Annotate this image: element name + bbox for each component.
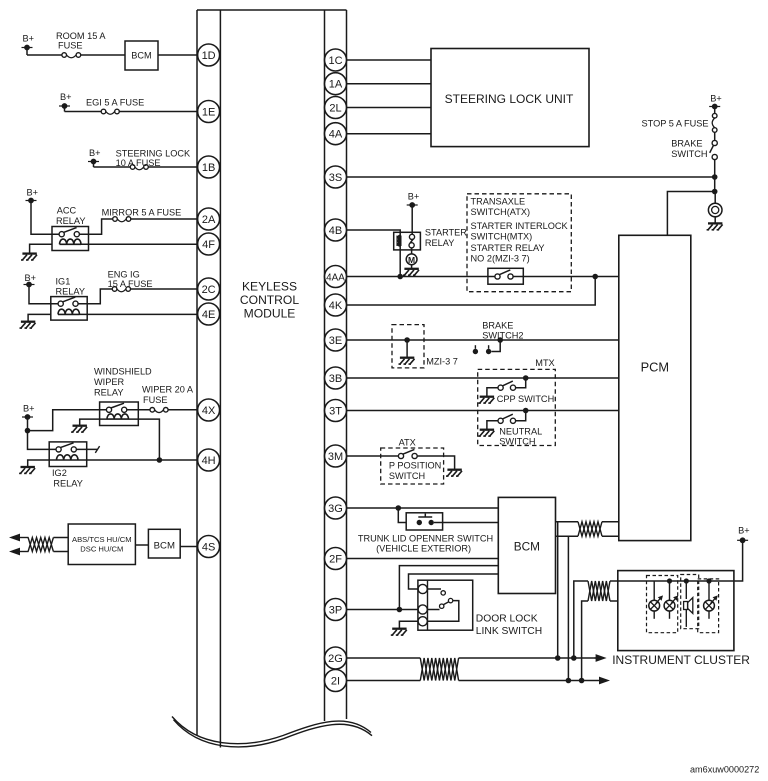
transaxle switch box (solid): [488, 268, 523, 284]
STEERING LOCK UNIT box: [431, 49, 589, 147]
ground (wiper relay): [71, 426, 87, 432]
wire 3M to switch: [347, 455, 399, 457]
label ROOM 15 A FUSE: [56, 31, 106, 51]
twisted pair (ABS): [28, 538, 53, 552]
ground (CPP): [478, 397, 494, 403]
svg-text:P POSITION: P POSITION: [389, 461, 441, 471]
wire IG2 coil to 4H: [78, 459, 209, 461]
wire drop BCM1 to 2G: [557, 522, 559, 658]
svg-text:STARTER INTERLOCK: STARTER INTERLOCK: [471, 221, 569, 231]
svg-text:1A: 1A: [329, 79, 343, 91]
wire to PCM top: [667, 192, 714, 236]
IG1 relay coil: [58, 309, 80, 314]
wire B+ to SL fuse: [94, 166, 131, 168]
label CPP SWITCH: [497, 394, 555, 404]
relay box IG1: [51, 297, 87, 321]
svg-text:INSTRUMENT CLUSTER: INSTRUMENT CLUSTER: [612, 653, 750, 667]
svg-text:WIPER: WIPER: [94, 377, 124, 387]
svg-text:DOOR LOCK: DOOR LOCK: [476, 614, 538, 625]
wire coil to 4E: [80, 313, 209, 315]
wavy break at bottom of module: [172, 717, 372, 747]
svg-text:2G: 2G: [328, 653, 343, 665]
wire B+ into cluster: [734, 540, 743, 581]
connector pin 4AA: [325, 266, 347, 288]
svg-text:B+: B+: [710, 94, 722, 104]
buzzer/speaker: [684, 581, 693, 627]
wire 1A to steering lock unit: [347, 83, 432, 85]
fuse STOP 5A: [712, 113, 717, 132]
svg-text:KEYLESS: KEYLESS: [242, 280, 297, 294]
B+ terminal (ACC): [26, 188, 39, 204]
connector pin 1D: [198, 44, 220, 66]
connector pin 2C: [198, 278, 220, 300]
cluster internal bus: [618, 580, 734, 582]
svg-text:IG1: IG1: [56, 277, 71, 287]
junction CPP: [523, 375, 529, 381]
svg-text:B+: B+: [60, 92, 72, 102]
starter relay coil: [397, 236, 400, 247]
svg-text:2F: 2F: [329, 553, 342, 565]
connector pin 2F: [325, 548, 347, 570]
label STEERING LOCK 10 A FUSE: [116, 149, 191, 169]
label ACC RELAY: [56, 206, 85, 227]
label EGI 5 A FUSE: [86, 98, 144, 108]
trunk lid switch box: [406, 513, 442, 530]
MZI-3 7 dashed box: [392, 325, 424, 368]
wire 2I right: [459, 680, 599, 682]
wire to ground (MZI): [406, 340, 408, 357]
starter relay box: [394, 232, 421, 250]
connector pin 4B: [325, 219, 347, 241]
BCM box (ABS): [148, 529, 180, 558]
label KEYLESS CONTROL MODULE: [240, 280, 299, 321]
svg-text:4X: 4X: [202, 405, 216, 417]
wire fuse to 2C: [131, 288, 209, 290]
connector pin 1A: [325, 73, 347, 95]
svg-text:TRANSAXLE: TRANSAXLE: [471, 197, 526, 207]
svg-text:1D: 1D: [202, 50, 216, 62]
ground (neutral): [478, 430, 494, 436]
connector pin 3M: [325, 445, 347, 467]
junction 4K/4AA: [592, 274, 598, 280]
body ground (circled): [707, 192, 723, 230]
ground (MZI): [399, 358, 415, 364]
wire SL fuse to 1B: [148, 166, 208, 168]
connector pin 3E: [325, 329, 347, 351]
wire coil to ground (ACC): [30, 244, 52, 253]
junction MZI ground tap: [404, 337, 410, 343]
wire 2I left: [347, 680, 421, 682]
wire 3E to PCM: [347, 339, 619, 341]
wire brake switch to 3S: [714, 160, 716, 177]
svg-text:ROOM 15 A: ROOM 15 A: [56, 31, 106, 41]
svg-text:4E: 4E: [202, 309, 215, 321]
junction 2G b: [571, 655, 577, 661]
svg-text:STARTER RELAY: STARTER RELAY: [471, 243, 545, 253]
svg-text:FUSE: FUSE: [58, 41, 83, 51]
wire B+ to fuse: [27, 54, 62, 56]
label INSTRUMENT CLUSTER: [612, 653, 750, 667]
svg-text:B+: B+: [27, 188, 39, 198]
svg-text:2A: 2A: [202, 214, 216, 226]
label TRUNK LID OPENNER SWITCH: [358, 534, 493, 554]
wiper relay coil: [107, 414, 129, 419]
arrow 2G: [595, 654, 607, 662]
wire 2I up to cluster: [582, 601, 588, 681]
door lock internal contacts: [427, 589, 459, 621]
ground (ACC relay): [21, 254, 37, 260]
svg-text:CPP SWITCH: CPP SWITCH: [497, 394, 555, 404]
junction brake switch2: [497, 337, 503, 343]
label WIPER 20 A FUSE: [142, 385, 194, 406]
svg-text:MIRROR 5 A FUSE: MIRROR 5 A FUSE: [102, 207, 182, 217]
label MIRROR 5 A FUSE: [102, 207, 182, 217]
svg-text:BRAKE: BRAKE: [671, 139, 702, 149]
wire ABS to BCM: [135, 544, 148, 546]
wire BCM to 1D: [158, 54, 209, 56]
wire ACC contact to fuse: [79, 219, 112, 234]
B+ terminal (cluster): [737, 526, 750, 544]
svg-text:4AA: 4AA: [326, 272, 345, 283]
ground (door lock): [391, 629, 407, 635]
connector pin 1C: [325, 49, 347, 71]
keyless control module outline (two connector strips): [197, 10, 347, 748]
svg-text:2L: 2L: [329, 102, 341, 114]
starter relay contacts: [409, 234, 415, 248]
INSTRUMENT CLUSTER box: [618, 571, 734, 651]
ABS/TCS HU/CM DSC HU/CM box: [68, 524, 135, 565]
connector pin 4H: [198, 449, 220, 471]
svg-text:4K: 4K: [329, 300, 343, 312]
wire wiper coil to ground: [80, 419, 107, 425]
wire 2G up to cluster: [574, 581, 588, 658]
label DOOR LOCK LINK SWITCH: [476, 614, 542, 638]
svg-text:BCM: BCM: [154, 541, 175, 552]
svg-text:B+: B+: [89, 148, 101, 158]
svg-text:1E: 1E: [202, 106, 215, 118]
wire 4AA to PCM: [347, 276, 619, 278]
TRANSAXLE dashed box: [467, 194, 571, 292]
indicator lamp 3: [704, 581, 718, 619]
connector pin 2A: [198, 208, 220, 230]
svg-text:NO 2(MZI-3 7): NO 2(MZI-3 7): [471, 254, 530, 264]
fuse ROOM 15A: [62, 53, 81, 58]
connector pin 4X: [198, 399, 220, 421]
relay box IG2: [49, 442, 86, 467]
svg-text:RELAY: RELAY: [94, 388, 123, 398]
svg-text:SWITCH: SWITCH: [499, 437, 535, 447]
PCM box: [619, 235, 691, 540]
svg-text:RELAY: RELAY: [56, 216, 85, 226]
connector pin 3T: [325, 400, 347, 422]
wire IG2 contact stub: [76, 446, 99, 453]
wire 3G to BCM: [347, 507, 499, 509]
wire CPP to ground: [487, 388, 498, 397]
fuse WIPER 20A: [150, 408, 168, 413]
svg-text:MODULE: MODULE: [244, 307, 296, 321]
label BRAKE SWITCH2: [482, 321, 523, 341]
label NEUTRAL SWITCH: [499, 427, 542, 447]
svg-text:3T: 3T: [329, 405, 342, 417]
IG2 relay coil: [56, 455, 78, 460]
svg-text:B+: B+: [23, 404, 35, 414]
wire fuse to 4X: [168, 409, 209, 411]
label STOP 5 A FUSE: [642, 119, 709, 129]
junction 3S/brake: [712, 174, 718, 180]
wire 2G left: [347, 657, 421, 659]
label ENG IG 15 A FUSE: [108, 270, 153, 290]
wire 3P to switch: [347, 609, 419, 611]
svg-text:3G: 3G: [328, 503, 343, 515]
ACC relay contacts: [59, 228, 79, 237]
indicator lamp 1: [649, 581, 663, 619]
wire down to PCM feed: [714, 177, 716, 192]
B+ terminal (wiper): [22, 404, 35, 420]
svg-text:BCM: BCM: [131, 51, 151, 61]
wire 4B to starter relay coil: [347, 230, 401, 236]
CPP switch contacts: [498, 381, 516, 390]
wire B+ to wiper relay: [28, 410, 107, 431]
wire 2G right: [459, 657, 596, 659]
wire B+ down to ACC relay: [31, 201, 59, 235]
svg-text:BRAKE: BRAKE: [482, 321, 513, 331]
junction 2G a: [555, 655, 561, 661]
label P POSITION SWITCH: [389, 461, 441, 482]
wire 3T to PCM: [347, 410, 619, 412]
svg-text:SWITCH(ATX): SWITCH(ATX): [471, 207, 531, 217]
ground (starter motor): [403, 265, 419, 276]
relay box wiper: [100, 402, 139, 426]
wire B+ to starter contact: [411, 205, 413, 234]
svg-text:RELAY: RELAY: [56, 287, 85, 297]
wire into cluster 1: [610, 580, 618, 582]
junction starter coil/4AA: [397, 274, 403, 280]
B+ terminal (IG1): [24, 273, 37, 287]
door lock poles: [418, 584, 427, 626]
svg-text:1C: 1C: [328, 55, 342, 67]
svg-text:ATX: ATX: [399, 438, 416, 448]
svg-text:CONTROL: CONTROL: [240, 293, 299, 307]
B+ terminal (starter relay): [407, 192, 420, 208]
svg-text:4S: 4S: [202, 541, 215, 553]
arrow 2I: [598, 677, 610, 685]
junction lamp2 bus: [667, 578, 672, 583]
connector pin 1B: [198, 156, 220, 178]
wire 1C to steering lock unit: [347, 59, 432, 61]
ACC relay coil: [60, 239, 82, 244]
svg-text:RELAY: RELAY: [425, 238, 454, 248]
svg-text:DSC HU/CM: DSC HU/CM: [80, 545, 123, 554]
connector pin 4S: [198, 536, 220, 558]
svg-text:M: M: [408, 255, 415, 265]
wire 3B to PCM: [347, 377, 619, 379]
junction lamp3 bus: [706, 578, 711, 583]
svg-text:SWITCH2: SWITCH2: [482, 331, 523, 341]
connector pin 2L: [325, 97, 347, 119]
svg-text:(VEHICLE EXTERIOR): (VEHICLE EXTERIOR): [376, 544, 471, 554]
wires braid to ABS box: [53, 538, 68, 552]
label WINDSHIELD WIPER RELAY: [94, 367, 152, 398]
svg-text:SWITCH: SWITCH: [389, 471, 425, 481]
wire coil to 4AA junction: [399, 246, 401, 277]
wire IG2 coil to ground: [28, 460, 57, 467]
svg-text:STARTER: STARTER: [425, 228, 467, 238]
wire neutral to ground: [487, 421, 498, 430]
svg-text:3B: 3B: [329, 373, 342, 385]
wire 3S: [347, 176, 715, 178]
svg-text:STEERING LOCK UNIT: STEERING LOCK UNIT: [445, 92, 574, 106]
wire EGI fuse to 1E: [119, 111, 208, 113]
svg-text:B+: B+: [25, 273, 37, 283]
label IG1 RELAY: [56, 277, 85, 297]
P position switch contacts: [398, 449, 417, 458]
ATX dashed box: [381, 448, 444, 484]
door lock link switch box: [418, 580, 473, 630]
IG1 relay contacts: [58, 297, 78, 306]
svg-text:IG2: IG2: [52, 468, 67, 478]
part number: [690, 765, 759, 775]
svg-text:1B: 1B: [202, 162, 215, 174]
wire BCM to door lock A: [399, 566, 498, 610]
connector pin 4F: [198, 233, 220, 255]
wire CPP drop: [516, 378, 526, 388]
neutral switch contacts: [498, 414, 516, 423]
wire BCM-PCM 2: [556, 535, 619, 537]
junction 2I a: [566, 678, 572, 684]
IG2 relay contacts: [56, 443, 76, 452]
label ATX: [399, 438, 416, 448]
cluster dashed box 1: [647, 576, 678, 633]
label MTX: [535, 358, 554, 368]
svg-text:SWITCH(MTX): SWITCH(MTX): [471, 232, 533, 242]
B+ terminal (steering lock fuse): [88, 148, 101, 167]
fuse EGI 5A: [101, 109, 119, 114]
wire trunk switch to BCM: [434, 522, 498, 524]
cluster dashed box 3: [698, 579, 719, 633]
wire trunk branch: [398, 508, 406, 523]
wiper relay contacts: [106, 403, 126, 412]
connector pin 3G: [325, 497, 347, 519]
arrow out (ABS top): [9, 534, 29, 542]
wire B+ branch to IG2: [28, 431, 57, 450]
brake switch2 contacts: [473, 340, 501, 354]
svg-text:NEUTRAL: NEUTRAL: [499, 427, 542, 437]
connector pin 4A: [325, 123, 347, 145]
wire into cluster 2: [610, 600, 618, 602]
transaxle switch contacts: [495, 270, 513, 279]
connector pin 3P: [325, 599, 347, 621]
junction speaker bus: [684, 578, 689, 583]
svg-text:ABS/TCS HU/CM: ABS/TCS HU/CM: [72, 535, 132, 544]
BCM box (right): [498, 497, 555, 593]
connector pin 3B: [325, 367, 347, 389]
wire fuse to BCM: [81, 54, 125, 56]
svg-text:3M: 3M: [328, 451, 343, 463]
junction 2I b: [579, 678, 585, 684]
svg-text:4B: 4B: [329, 225, 342, 237]
connector pin 1E: [198, 101, 220, 123]
brake switch: [710, 140, 718, 159]
label STARTER RELAY: [425, 228, 467, 248]
fuse STEERING LOCK 10A: [130, 165, 148, 170]
svg-text:TRUNK LID OPENNER SWITCH: TRUNK LID OPENNER SWITCH: [358, 534, 493, 544]
wire drop BCM2 to 2I: [567, 536, 569, 680]
wire contact to wiper fuse: [127, 409, 150, 411]
B+ terminal (room fuse): [22, 34, 35, 56]
label BRAKE SWITCH: [671, 139, 707, 160]
svg-text:B+: B+: [738, 526, 750, 536]
svg-text:4H: 4H: [202, 455, 216, 467]
twisted pair (cluster): [588, 581, 610, 601]
wire P position to ground: [417, 456, 454, 469]
wire fuse to brake switch: [714, 132, 716, 140]
wire wiper coil to 4H: [129, 419, 160, 460]
wire 2F to BCM: [347, 558, 499, 560]
starter motor M: [406, 248, 417, 265]
connector pin 2I: [325, 670, 347, 692]
wire B+ to EGI fuse: [65, 111, 102, 113]
svg-text:am6xuw0000272: am6xuw0000272: [690, 765, 759, 775]
svg-text:MTX: MTX: [535, 358, 554, 368]
B+ terminal (EGI): [59, 92, 72, 112]
svg-text:WINDSHIELD: WINDSHIELD: [94, 367, 152, 377]
svg-text:RELAY: RELAY: [53, 479, 82, 489]
wire BCM to door lock B: [409, 574, 499, 589]
indicator lamp 2: [664, 581, 678, 619]
svg-text:SWITCH: SWITCH: [671, 149, 707, 159]
twisted pair (2G/2I): [420, 658, 458, 681]
wire B+ down to IG1 relay: [29, 285, 58, 304]
label MZI-3 7: [426, 357, 458, 367]
svg-text:STOP 5 A FUSE: STOP 5 A FUSE: [642, 119, 709, 129]
wire fuse to 2A: [131, 218, 209, 220]
svg-text:2I: 2I: [331, 675, 340, 687]
svg-text:PCM: PCM: [641, 360, 669, 375]
wire coil to 4F: [81, 243, 209, 245]
svg-text:2C: 2C: [202, 284, 216, 296]
svg-text:3S: 3S: [329, 172, 342, 184]
connector pin 3S: [325, 166, 347, 188]
fuse MIRROR 5A: [113, 217, 131, 222]
ground (IG2 relay): [19, 467, 35, 473]
cluster dashed box 2: [681, 575, 699, 629]
svg-text:MZI-3 7: MZI-3 7: [426, 357, 458, 367]
B+ terminal (stop fuse): [709, 94, 722, 114]
junction wiper-IG2 on 4H wire: [157, 457, 163, 463]
wire 4K up to 4AA: [347, 277, 596, 306]
connector pin 4E: [198, 303, 220, 325]
wire neutral drop: [516, 411, 526, 421]
svg-text:3P: 3P: [329, 604, 342, 616]
wire door lock ground: [399, 621, 418, 628]
junction PCM feed: [712, 189, 718, 195]
svg-text:ENG IG: ENG IG: [108, 270, 140, 280]
twisted pair (BCM-PCM): [578, 522, 602, 537]
junction trunk branch: [396, 505, 402, 511]
label IG2 RELAY: [52, 468, 83, 489]
arrow out (ABS bottom): [9, 548, 29, 556]
connector pin 2G: [325, 647, 347, 669]
wire 2L to steering lock unit: [347, 107, 432, 109]
svg-text:BCM: BCM: [514, 540, 540, 554]
wire 4A to steering lock unit: [347, 133, 432, 135]
svg-text:STEERING LOCK: STEERING LOCK: [116, 149, 191, 159]
svg-text:FUSE: FUSE: [143, 395, 168, 405]
relay box ACC: [52, 227, 89, 251]
wire coil to ground (IG1): [28, 314, 51, 321]
connector pin 4K: [325, 294, 347, 316]
ground (P position): [446, 470, 462, 476]
